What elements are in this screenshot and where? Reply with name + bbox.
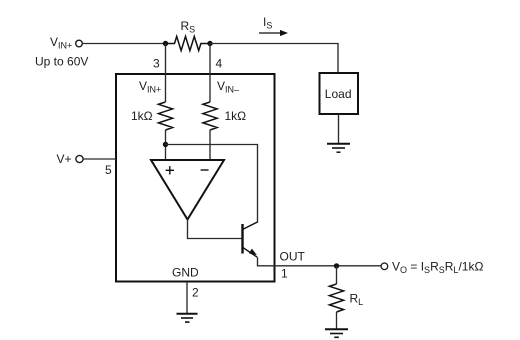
terminal V+ bbox=[76, 155, 83, 162]
op-amp U1 bbox=[151, 160, 224, 220]
arrow IS current direction bbox=[259, 32, 281, 34]
wire op-amp output to base bbox=[188, 220, 242, 239]
wire node B to load bbox=[210, 44, 338, 73]
wire node D to RL bbox=[336, 266, 338, 284]
svg-text:4: 4 bbox=[216, 57, 223, 71]
svg-text:1: 1 bbox=[281, 266, 288, 280]
resistor R1 1k bbox=[158, 102, 172, 130]
wire RL to ground bbox=[336, 312, 338, 329]
wire pin 2 to ground bbox=[186, 282, 188, 313]
svg-text:5: 5 bbox=[105, 163, 112, 177]
transistor Q1 bbox=[243, 222, 259, 258]
svg-text:1kΩ: 1kΩ bbox=[225, 109, 247, 123]
terminal VIN+ bbox=[76, 40, 83, 47]
svg-text:OUT: OUT bbox=[280, 250, 306, 264]
load box bbox=[320, 73, 359, 114]
IC box U1 bbox=[116, 74, 275, 282]
resistor R2 1k bbox=[203, 102, 217, 130]
wire load to ground bbox=[338, 115, 340, 144]
wire VIN+ to node A bbox=[82, 43, 166, 45]
svg-text:V+: V+ bbox=[57, 152, 72, 166]
wire R2 to op-amp bbox=[209, 130, 211, 160]
svg-text:Load: Load bbox=[325, 87, 352, 101]
svg-text:Up to 60V: Up to 60V bbox=[35, 55, 88, 69]
svg-text:2: 2 bbox=[192, 285, 199, 299]
wire emitter to out bbox=[258, 257, 381, 266]
node A junction dot bbox=[163, 41, 168, 46]
wire R1 to node C bbox=[165, 130, 167, 160]
wire pin 3 bbox=[165, 44, 167, 103]
resistor RL bbox=[329, 284, 343, 312]
terminal VO bbox=[381, 263, 388, 270]
op-amp minus input bbox=[201, 169, 209, 171]
wire pin 4 bbox=[209, 44, 211, 103]
wire feedback node C to collector bbox=[166, 145, 258, 222]
svg-text:GND: GND bbox=[172, 265, 199, 279]
wire V+ to box bbox=[83, 158, 116, 160]
svg-text:1kΩ: 1kΩ bbox=[131, 109, 153, 123]
ground gnd pin bbox=[177, 314, 198, 322]
ground RL bbox=[325, 329, 348, 337]
node B junction dot bbox=[207, 41, 212, 46]
svg-text:3: 3 bbox=[153, 57, 160, 71]
node D junction dot bbox=[334, 263, 339, 268]
op-amp plus input bbox=[166, 166, 174, 174]
node C junction dot bbox=[163, 142, 168, 147]
resistor RS bbox=[166, 36, 211, 50]
ground load bbox=[327, 144, 350, 153]
